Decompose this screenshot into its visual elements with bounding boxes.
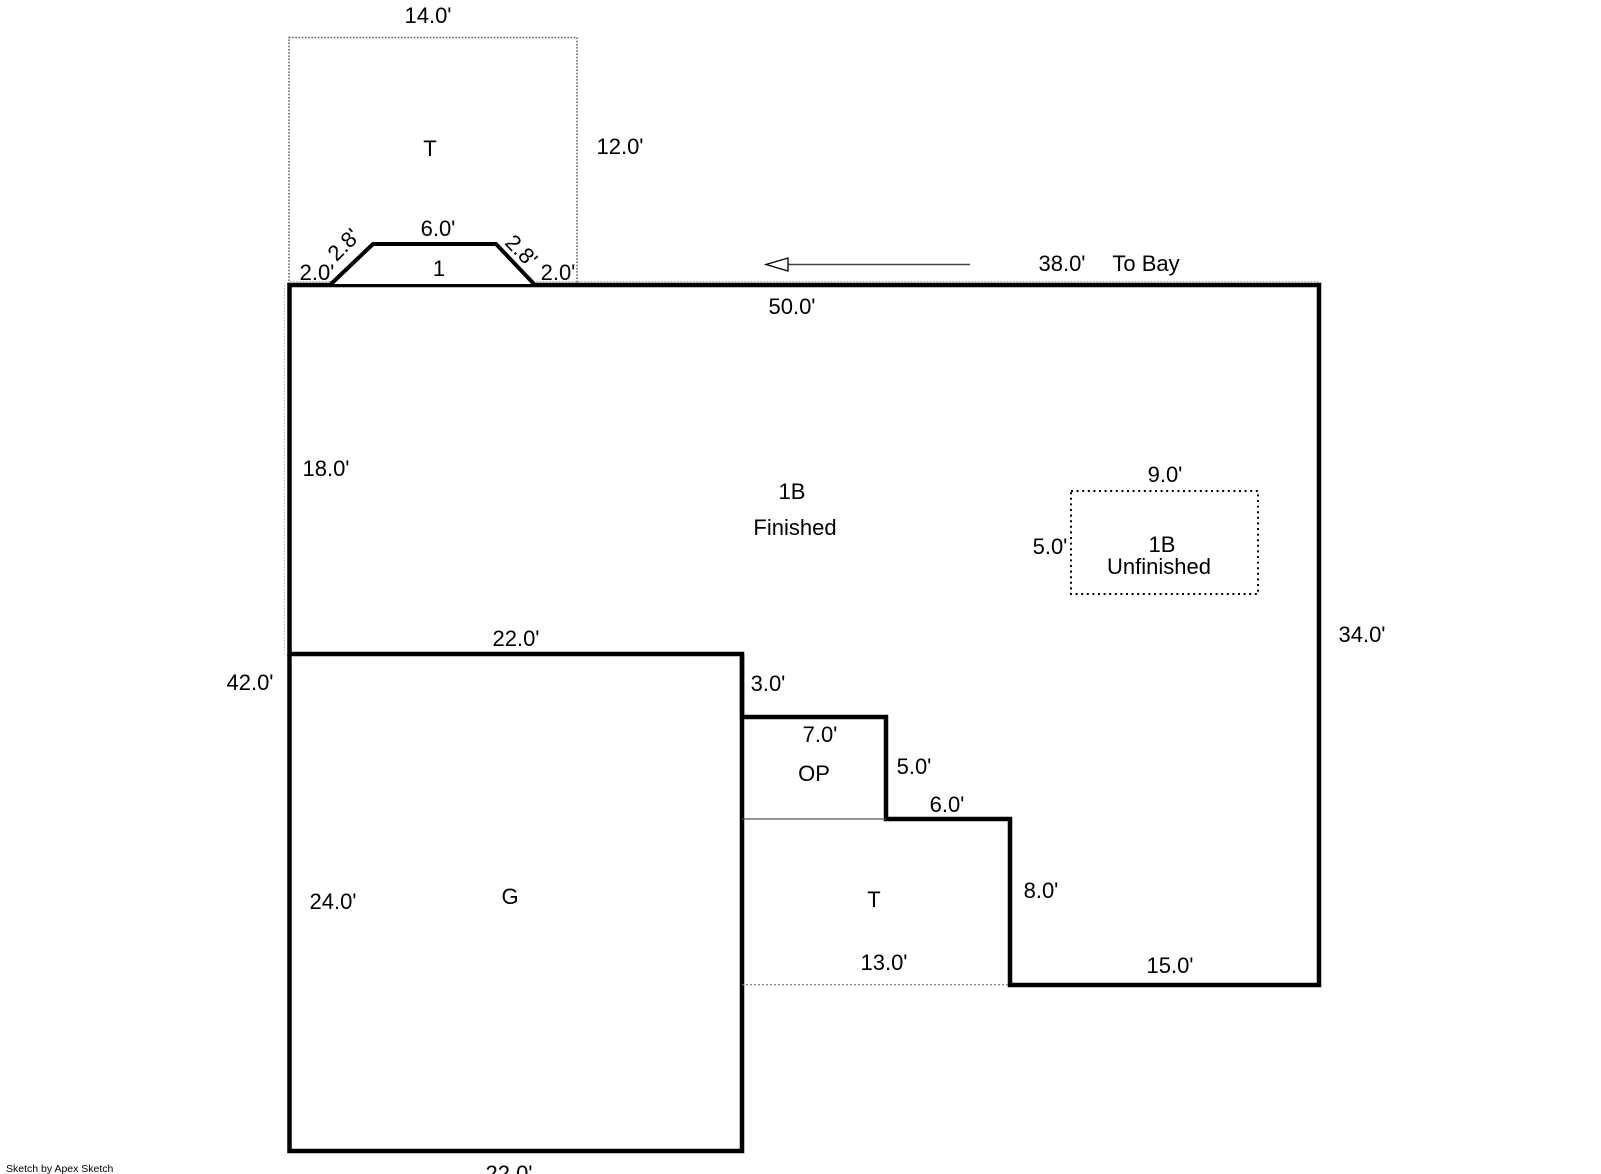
svg-text:15.0': 15.0' <box>1146 953 1193 978</box>
svg-text:8.0': 8.0' <box>1024 878 1059 903</box>
svg-text:1B: 1B <box>779 479 806 504</box>
svg-text:34.0': 34.0' <box>1338 622 1385 647</box>
svg-text:5.0': 5.0' <box>897 754 932 779</box>
svg-text:3.0': 3.0' <box>751 671 786 696</box>
main floor outline 1B (thick walls) <box>290 285 1320 985</box>
svg-text:14.0': 14.0' <box>404 3 451 28</box>
stoop/step area 1 (trapezoid) <box>331 244 534 284</box>
faint dotted line along top wall <box>290 281 1319 283</box>
svg-text:T: T <box>423 136 436 161</box>
svg-text:22.0': 22.0' <box>492 626 539 651</box>
svg-text:13.0': 13.0' <box>860 950 907 975</box>
svg-text:2.0': 2.0' <box>300 260 335 285</box>
direction arrow to bay <box>766 258 970 271</box>
svg-text:2.0': 2.0' <box>541 260 576 285</box>
svg-text:7.0': 7.0' <box>803 722 838 747</box>
svg-text:50.0': 50.0' <box>768 294 815 319</box>
faint dotted line along left wall <box>284 285 286 654</box>
svg-text:42.0': 42.0' <box>226 670 273 695</box>
svg-text:18.0': 18.0' <box>302 456 349 481</box>
svg-text:Unfinished: Unfinished <box>1107 554 1211 579</box>
svg-text:6.0': 6.0' <box>421 216 456 241</box>
svg-text:Sketch by Apex Sketch: Sketch by Apex Sketch <box>6 1163 114 1174</box>
area T (top deck) dotted boundary <box>289 38 577 285</box>
svg-text:6.0': 6.0' <box>930 792 965 817</box>
svg-text:24.0': 24.0' <box>309 889 356 914</box>
svg-text:OP: OP <box>798 761 830 786</box>
garage G outline (thick walls) <box>290 654 743 1151</box>
svg-text:T: T <box>867 887 880 912</box>
svg-text:To Bay: To Bay <box>1112 251 1179 276</box>
svg-text:Finished: Finished <box>753 515 836 540</box>
OP bottom thin line <box>742 818 886 820</box>
area 1B Unfinished dotted boundary <box>1071 491 1258 594</box>
svg-text:9.0': 9.0' <box>1148 462 1183 487</box>
svg-text:22.0': 22.0' <box>485 1161 532 1174</box>
svg-text:G: G <box>501 884 518 909</box>
svg-text:38.0': 38.0' <box>1038 251 1085 276</box>
svg-text:12.0': 12.0' <box>596 134 643 159</box>
svg-text:5.0': 5.0' <box>1033 534 1068 559</box>
T area bottom dotted line <box>742 984 1010 986</box>
svg-text:1: 1 <box>433 256 445 281</box>
